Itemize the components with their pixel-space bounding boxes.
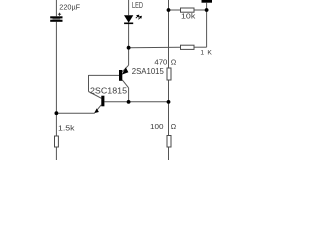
capacitor C1 middle line bbox=[53, 18, 61, 20]
wire right rail bottom segment bbox=[168, 147, 170, 160]
junction right rail at Q2 base bbox=[167, 100, 171, 104]
wire 10k right bbox=[194, 9, 207, 11]
LED D1 cathode bar bbox=[124, 22, 133, 24]
transistor Q2 emitter arrow (NPN, points out) bbox=[94, 108, 99, 113]
resistor R4 100ohm body bbox=[167, 136, 171, 148]
wire right rail middle segment bbox=[168, 80, 170, 136]
svg-text:1.5k: 1.5k bbox=[58, 124, 75, 133]
capacitor C1 plate top bbox=[50, 16, 62, 18]
junction left rail emitter bbox=[55, 111, 59, 115]
resistor R3 470ohm body bbox=[167, 68, 171, 80]
power rail V+ bar bbox=[202, 0, 213, 3]
junction V+ 10k bbox=[205, 8, 209, 12]
wire LED anode from top edge bbox=[128, 0, 130, 15]
wire right rail top segment bbox=[168, 0, 170, 68]
wire Q1 emitter vertical bbox=[128, 48, 130, 65]
transistor Q2 2SC1815 base bar bbox=[101, 96, 104, 107]
wire left rail middle segment bbox=[55, 22, 57, 136]
junction node A (LED/1K) bbox=[127, 46, 131, 50]
wire Q2 base horizontal to right rail bbox=[104, 101, 168, 103]
svg-text:10k: 10k bbox=[181, 12, 196, 21]
resistor R5 1.5k body bbox=[55, 136, 59, 147]
svg-text:LED: LED bbox=[132, 1, 143, 10]
svg-text:Ω: Ω bbox=[171, 57, 177, 66]
transistor Q1 emitter arrow (PNP, points to bar) bbox=[122, 67, 128, 74]
svg-text:470: 470 bbox=[154, 57, 167, 66]
wire left rail bottom segment bbox=[55, 147, 57, 160]
junction node B (Q1 collector/Q2 base/right rail) bbox=[127, 100, 131, 104]
resistor R1 10k body bbox=[181, 8, 195, 12]
svg-text:K: K bbox=[207, 49, 212, 56]
wire 1K left to node A bbox=[129, 46, 181, 48]
resistor R2 1K body bbox=[181, 45, 195, 49]
svg-text:Ω: Ω bbox=[171, 122, 177, 131]
wire V+ drop bbox=[206, 3, 208, 47]
wire Q1 collector vertical to node B bbox=[128, 88, 130, 102]
transistor Q1 2SA1015 base bar bbox=[119, 70, 122, 81]
wire Q2 collector vertical bbox=[88, 75, 90, 92]
LED D1 triangle bbox=[124, 15, 133, 23]
LED D1 emission arrow 1 bbox=[136, 15, 139, 18]
wire Q2 emitter diagonal bbox=[95, 105, 101, 113]
wire Q2 collector diagonal bbox=[89, 92, 102, 99]
svg-text:1: 1 bbox=[200, 49, 204, 56]
wire 10k left bbox=[169, 9, 181, 11]
svg-text:100: 100 bbox=[150, 122, 164, 131]
wire Q1 base horizontal bbox=[89, 74, 120, 76]
svg-text:2SC1815: 2SC1815 bbox=[90, 86, 128, 95]
capacitor C1 plate bottom bbox=[50, 20, 62, 22]
wire Q2 emitter horizontal to left rail bbox=[56, 112, 94, 114]
LED D1 emission arrow 2 bbox=[138, 16, 141, 19]
capacitor C1 plus sign bbox=[58, 13, 61, 16]
junction right rail 10k bbox=[167, 8, 171, 12]
wire LED cathode to node A bbox=[128, 23, 130, 47]
wire left rail top segment bbox=[55, 0, 57, 16]
wire 1K right corner bbox=[194, 46, 207, 48]
wire Q1 collector diagonal bbox=[122, 80, 128, 88]
svg-text:220µF: 220µF bbox=[59, 3, 80, 12]
svg-text:2SA1015: 2SA1015 bbox=[132, 67, 165, 76]
wire Q1 emitter diagonal bbox=[123, 65, 129, 71]
